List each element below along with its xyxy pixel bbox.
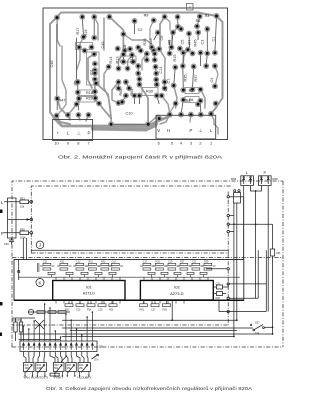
- wire bus horizontals bottom: [19, 312, 273, 340]
- svg-text:R41: R41: [37, 365, 42, 367]
- potentiometer R40: [24, 363, 35, 372]
- copper traces: [50, 13, 223, 135]
- resistor R52: [14, 322, 17, 332]
- op-amp IC IO1: [53, 281, 125, 301]
- svg-text:A273.D: A273.D: [83, 292, 95, 296]
- svg-text:I01: I01: [90, 69, 94, 74]
- connector strip: [20, 341, 97, 352]
- scan mark 3: [0, 333, 2, 337]
- switch S27: [272, 327, 274, 334]
- svg-text:R20: R20: [86, 97, 93, 101]
- svg-text:R23: R23: [101, 260, 106, 263]
- svg-text:R35: R35: [184, 75, 188, 82]
- capacitor C54: [270, 249, 274, 256]
- svg-text:C17: C17: [143, 260, 148, 263]
- svg-text:R56: R56: [273, 177, 279, 181]
- wire IC2 to C26/R66: [213, 284, 228, 294]
- potentiometer R55 L: [241, 176, 254, 186]
- svg-text:V: V: [157, 128, 160, 133]
- potentiometer R56 P: [259, 176, 272, 186]
- svg-text:10: 10: [54, 142, 58, 146]
- resistor R51: [20, 200, 29, 204]
- svg-text:3: 3: [190, 142, 192, 146]
- svg-text:C26: C26: [216, 282, 221, 285]
- svg-text:R47: R47: [59, 99, 66, 103]
- svg-text:Obr. 3. Celkové zapojení obvod: Obr. 3. Celkové zapojení obvodu nízkofre…: [46, 385, 253, 391]
- svg-text:R63: R63: [140, 308, 145, 311]
- wire diagonal tap: [61, 356, 67, 363]
- svg-text:J: J: [39, 243, 41, 248]
- svg-text:R29: R29: [204, 260, 209, 263]
- PCB board outline: [43, 8, 228, 140]
- scan mark 2: [0, 302, 3, 306]
- svg-text:A273.D: A273.D: [170, 291, 183, 296]
- svg-text:1: 1: [210, 142, 212, 146]
- svg-text:R36: R36: [109, 308, 114, 311]
- svg-text:IO1: IO1: [86, 286, 92, 290]
- svg-text:10k: 10k: [20, 204, 25, 208]
- svg-text:C14: C14: [159, 67, 163, 74]
- svg-text:R5: R5: [168, 40, 172, 45]
- svg-text:C6: C6: [160, 36, 164, 41]
- svg-text:C3: C3: [201, 40, 205, 45]
- component outlines: [76, 43, 200, 103]
- RC row labels: [43, 260, 209, 263]
- svg-text:C4: C4: [210, 78, 214, 83]
- svg-text:R66: R66: [216, 297, 221, 300]
- wires strip to bus: [23, 303, 94, 341]
- svg-text:7: 7: [87, 142, 89, 146]
- svg-text:C1: C1: [212, 37, 216, 42]
- svg-text:LTN: LTN: [94, 359, 99, 362]
- svg-text:R7: R7: [188, 40, 192, 45]
- svg-text:R28: R28: [149, 39, 153, 46]
- wire cross junction: [35, 320, 44, 329]
- svg-text:C52: C52: [4, 242, 9, 246]
- svg-text:C15: C15: [112, 260, 117, 263]
- input line mid: [8, 219, 30, 221]
- svg-text:4: 4: [180, 142, 182, 146]
- connector box 2: [156, 115, 216, 139]
- svg-text:C8: C8: [123, 45, 127, 50]
- svg-text:IO2: IO2: [174, 286, 180, 290]
- wire stub y231.6: [229, 231, 234, 233]
- svg-text:R14: R14: [109, 57, 113, 64]
- svg-text:9: 9: [67, 142, 69, 146]
- svg-text:R37: R37: [194, 75, 198, 82]
- svg-text:H: H: [167, 128, 170, 133]
- svg-text:R1: R1: [196, 19, 201, 23]
- svg-text:R9: R9: [144, 14, 149, 18]
- connector circles on shield bus x228: [227, 196, 229, 198]
- amplifier enclosure box: [14, 260, 244, 301]
- wire line y224.3: [229, 223, 272, 225]
- RC network rows above ICs: [18, 263, 240, 281]
- svg-text:C13: C13: [76, 260, 81, 263]
- component lead wires: [57, 16, 217, 124]
- input line L: [4, 201, 30, 203]
- svg-text:VÁH. HLASITOSTI: VÁH. HLASITOSTI: [24, 376, 49, 380]
- svg-text:R34: R34: [87, 308, 92, 311]
- input connector socket: [8, 198, 17, 238]
- RC network row below ICs: [56, 300, 184, 307]
- svg-text:VÝŠKY: VÝŠKY: [54, 375, 64, 380]
- svg-text:C5: C5: [181, 40, 185, 45]
- connector box 1: [53, 120, 93, 141]
- wire pot P right leg: [267, 186, 269, 312]
- svg-text:R27: R27: [130, 57, 134, 64]
- svg-text:K: K: [38, 280, 41, 285]
- svg-text:R30: R30: [146, 90, 153, 94]
- svg-text:⊥: ⊥: [198, 128, 202, 133]
- wire stub y215.6: [229, 215, 234, 217]
- wire left stub y318: [12, 317, 35, 319]
- svg-text:C9: C9: [164, 87, 168, 92]
- wire pot L right + pot P left join: [251, 186, 262, 284]
- svg-text:⊥: ⊥: [77, 131, 81, 136]
- svg-text:R50: R50: [20, 227, 25, 231]
- svg-text:C23: C23: [76, 308, 81, 311]
- svg-text:R25: R25: [156, 260, 161, 263]
- svg-text:R42: R42: [54, 365, 59, 367]
- potentiometer R43: [66, 363, 77, 372]
- capacitor C52: [9, 238, 14, 245]
- connector circles on bus x228 lower: [227, 268, 229, 270]
- svg-text:P: P: [263, 170, 266, 175]
- potentiometer R42: [53, 363, 64, 372]
- svg-text:R17: R17: [76, 28, 80, 35]
- node circles on shield: [30, 201, 33, 204]
- resistor R50: [20, 231, 29, 235]
- strip pin arrows: [23, 343, 94, 350]
- wire amp input left: [18, 260, 20, 281]
- svg-text:R64: R64: [130, 89, 134, 96]
- svg-text:R4: R4: [186, 99, 191, 103]
- svg-text:R19: R19: [84, 30, 88, 37]
- svg-text:HLOUBKY: HLOUBKY: [78, 376, 92, 380]
- input line P: [4, 232, 30, 234]
- shield boundary mid (dash-dot): [12, 257, 283, 259]
- svg-text:R26: R26: [143, 39, 147, 46]
- node K: [36, 279, 44, 287]
- svg-text:R3: R3: [205, 14, 210, 18]
- svg-text:+: +: [57, 131, 60, 136]
- svg-text:C46: C46: [50, 61, 54, 68]
- svg-text:R55: R55: [231, 177, 237, 181]
- svg-text:R45: R45: [194, 40, 198, 47]
- svg-text:x: x: [189, 5, 191, 10]
- svg-text:C21: C21: [192, 260, 197, 263]
- resistor row mid-left: [28, 311, 70, 314]
- wire bus right verticals: [234, 197, 273, 337]
- svg-text:R40: R40: [25, 365, 30, 367]
- chassis boundary inner top (dash-dot): [31, 186, 232, 253]
- reference designator labels: [50, 14, 216, 116]
- resistor R53: [19, 322, 22, 332]
- svg-text:R44: R44: [79, 365, 84, 367]
- wire pot L left leg: [243, 186, 245, 260]
- svg-text:S27: S27: [255, 321, 260, 325]
- svg-text:C7: C7: [167, 79, 171, 84]
- svg-text:10k: 10k: [255, 331, 260, 335]
- svg-text:R62: R62: [119, 89, 123, 96]
- chassis boundary outer (dash-dot): [12, 181, 283, 347]
- capacitor C26: [217, 285, 223, 289]
- svg-text:R18: R18: [86, 91, 93, 95]
- svg-text:C25: C25: [98, 308, 103, 311]
- bottom chassis line (dash-dot): [12, 346, 283, 348]
- svg-text:P: P: [1, 231, 4, 236]
- svg-text:R15: R15: [173, 55, 177, 62]
- node J: [36, 241, 44, 249]
- wire bus line y250: [31, 249, 228, 251]
- shield vertical right bus (dash-dot): [12, 253, 228, 325]
- potentiometer R44: [78, 363, 90, 372]
- resistor R66: [217, 292, 223, 296]
- wires strip to potentiometers: [24, 352, 89, 363]
- svg-text:C45: C45: [101, 42, 105, 49]
- svg-text:8: 8: [77, 142, 79, 146]
- svg-text:R43: R43: [67, 365, 72, 367]
- wire input drops: [23, 238, 26, 260]
- svg-text:C19: C19: [168, 260, 173, 263]
- connector 2 pin numbers: [158, 142, 212, 146]
- marker box x: [187, 4, 194, 11]
- svg-text:C2: C2: [138, 28, 143, 32]
- svg-text:R11: R11: [60, 260, 65, 263]
- potentiometer R41: [36, 363, 47, 372]
- arrow to tuning: [92, 354, 99, 359]
- svg-text:R65: R65: [163, 308, 168, 311]
- connector 1 pin numbers: [54, 142, 89, 146]
- shield branch dash with corner (dash-dot): [31, 191, 228, 253]
- svg-text:P: P: [189, 128, 192, 133]
- wire stub y196.8: [229, 196, 243, 198]
- svg-text:6: 6: [158, 142, 160, 146]
- svg-text:C27: C27: [151, 308, 156, 311]
- svg-text:P: P: [88, 131, 91, 136]
- svg-text:181: 181: [99, 345, 104, 349]
- scan mark 1: [0, 210, 3, 214]
- svg-text:R21: R21: [89, 260, 94, 263]
- svg-text:Obr. 2. Montážní zapojení část: Obr. 2. Montážní zapojení části R v přij…: [58, 155, 223, 160]
- svg-text:R2: R2: [189, 89, 194, 93]
- svg-text:C10: C10: [126, 112, 133, 116]
- wire stubs from amp box right: [206, 269, 266, 298]
- svg-text:R13: R13: [116, 57, 120, 64]
- svg-text:R27: R27: [180, 260, 185, 263]
- svg-text:C11: C11: [43, 260, 48, 263]
- svg-text:2: 2: [199, 142, 201, 146]
- amp box bottom emphasis: [14, 299, 244, 301]
- transistor T7: [28, 309, 33, 314]
- svg-text:C54: C54: [276, 252, 281, 255]
- resistor R46: [50, 373, 59, 376]
- svg-text:R51: R51: [20, 196, 25, 200]
- solder pads: [54, 14, 219, 127]
- cable entry box: [234, 193, 241, 204]
- svg-text:5: 5: [171, 142, 173, 146]
- op-amp IC IO2: [140, 281, 213, 301]
